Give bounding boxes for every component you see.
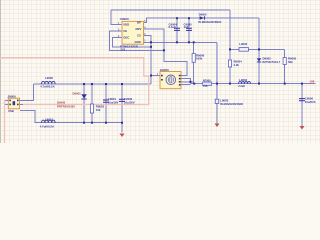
svg-text:D9000: D9000 — [199, 13, 207, 17]
svg-text:10u/16V: 10u/16V — [124, 101, 135, 105]
svg-text:CE: CE — [123, 29, 127, 33]
svg-text:1uF: 1uF — [184, 25, 189, 29]
junction x177 y42 — [176, 41, 178, 43]
junction x106 bottom rail — [105, 122, 107, 124]
inductor L9002 series — [239, 48, 249, 52]
ferrite bead L9003 — [215, 99, 219, 103]
junction x92 bottom rail — [91, 122, 93, 124]
capacitor C9002 — [119, 99, 125, 101]
junction x189 y18 — [188, 17, 190, 19]
svg-text:VDD: VDD — [123, 22, 129, 26]
junction x177 y18 — [176, 17, 178, 19]
svg-text:L9000: L9000 — [45, 76, 53, 80]
wire oscillator pin 4 — [181, 84, 190, 86]
capacitor C9005 — [186, 28, 192, 30]
capacitor C9006 — [299, 99, 305, 101]
svg-text:4.7uH/0.2A: 4.7uH/0.2A — [40, 124, 54, 128]
inductor L9000 series on left rail — [42, 81, 56, 84]
inductor L9001 series on bottom path — [42, 120, 56, 123]
svg-text:BLM18AG601SN1D: BLM18AG601SN1D — [220, 103, 243, 106]
wire ground line from U9000 pin 2 — [144, 41, 218, 43]
svg-text:DRV: DRV — [136, 27, 142, 31]
wire drop x285 to rail — [284, 49, 286, 83]
wire U9000 pin 6 drop to rail — [144, 36, 152, 84]
wire oscillator pin 3 — [181, 82, 193, 84]
wire mid horizontal y49 — [230, 48, 285, 50]
wire J9000 left stubs — [5, 100, 9, 104]
junction x217 rail — [216, 83, 218, 85]
zener D9002 — [257, 57, 281, 64]
svg-text:BP: BP — [137, 20, 141, 24]
resistor R9006 — [192, 54, 195, 63]
junction x259 y49 — [258, 48, 260, 50]
svg-text:2.2k: 2.2k — [234, 63, 240, 67]
oscillator G9000 — [157, 68, 185, 89]
ground at x302 — [300, 126, 305, 130]
svg-text:100k: 100k — [196, 57, 203, 61]
junction x122 bottom rail — [121, 122, 123, 124]
svg-text:56k: 56k — [288, 60, 293, 64]
resistor R9004 — [228, 60, 231, 67]
svg-text:L9002: L9002 — [239, 42, 247, 46]
junction x285 rail — [284, 83, 286, 85]
junction x84 bottom rail — [83, 122, 85, 124]
wire ground rail left — [34, 83, 151, 85]
wire net A right drop to rail — [229, 10, 231, 84]
wire oscillator pin 2 — [181, 79, 190, 84]
ground at x122 — [120, 134, 125, 138]
wire VBUS pink path — [0, 58, 149, 105]
svg-text:U9000: U9000 — [120, 17, 129, 21]
junction x230 rail — [229, 83, 231, 85]
svg-text:BZT52C5V1S-7: BZT52C5V1S-7 — [263, 61, 281, 64]
junction x230 y49 — [229, 48, 231, 50]
junction x151 y47 — [150, 46, 152, 48]
svg-text:4.7uH/0.2A: 4.7uH/0.2A — [40, 85, 54, 89]
junction x84 rail — [83, 83, 85, 85]
junction x194 rail — [193, 83, 195, 85]
resistor R9005 — [283, 58, 286, 65]
junction x164 y50 — [163, 49, 165, 51]
wire J9000 right low stub — [20, 103, 24, 105]
svg-text:G9000: G9000 — [160, 68, 169, 72]
svg-text:J9000: J9000 — [7, 94, 16, 98]
junction x151 y42 — [150, 41, 152, 43]
svg-text:1V8: 1V8 — [310, 79, 315, 83]
ground at x217 — [215, 124, 220, 128]
svg-text:L9004: L9004 — [239, 78, 247, 82]
wire U9000 pin 3 loop — [110, 31, 165, 50]
junction x259 rail — [258, 83, 260, 85]
resistor R9002 — [90, 104, 93, 113]
wire capacitor C9002 branch to ground — [121, 84, 123, 133]
svg-text:CS: CS — [137, 34, 141, 38]
wire drop x217 to ground — [216, 42, 218, 123]
wire oscillator pin 1 stub — [151, 75, 160, 77]
junction x194 y42 — [193, 41, 195, 43]
svg-text:D9001: D9001 — [73, 92, 82, 96]
capacitor C9004 — [174, 28, 180, 30]
svg-text:10u/6V3: 10u/6V3 — [305, 100, 316, 104]
connector J9000 — [7, 94, 19, 112]
diode D9000 series on net B — [199, 13, 222, 25]
wire capacitor C9004 branch — [176, 18, 178, 42]
junction x189 y42 — [188, 41, 190, 43]
wire VBUS left drop — [4, 100, 6, 143]
wire U9000 pin 2 left loop — [113, 38, 151, 47]
svg-text:10k: 10k — [96, 108, 101, 112]
wire net A left drop to U9000 pin 1 — [111, 10, 117, 25]
svg-text:3V3: 3V3 — [120, 48, 125, 52]
junction x92 rail — [91, 83, 93, 85]
wire net B drop at x259 — [258, 18, 260, 83]
junction x190 y82 — [189, 81, 191, 83]
svg-text:L9001: L9001 — [45, 118, 53, 122]
svg-text:2.2uH: 2.2uH — [238, 85, 245, 88]
wire diode D9001 branch — [83, 84, 85, 123]
diode D9001 — [73, 92, 87, 99]
svg-text:BLM18AG601SN1D: BLM18AG601SN1D — [199, 21, 222, 24]
wire net A top horizontal — [111, 9, 230, 11]
wire capacitor C9001 branch — [105, 84, 107, 123]
wire U9000 left pin stubs — [117, 25, 122, 38]
wire J9000 pin riser to rail — [20, 84, 34, 100]
svg-text:OSC: OSC — [123, 35, 129, 39]
svg-text:USB: USB — [8, 109, 14, 113]
svg-text:0.1uF: 0.1uF — [169, 25, 177, 29]
svg-text:1V8: 1V8 — [203, 85, 208, 88]
regulator U9000 — [118, 17, 146, 51]
svg-text:NT900: NT900 — [203, 79, 211, 82]
wire U9000 right pin stubs — [144, 23, 147, 30]
wire rail right — [190, 83, 315, 85]
wire net B from U9000 pin 5 — [144, 18, 260, 22]
svg-text:L9003: L9003 — [220, 99, 228, 103]
svg-text:10u/16V: 10u/16V — [108, 101, 119, 105]
wire U9000 pin 4 to oscillator — [144, 29, 188, 75]
svg-text:PRTR5V0U2X: PRTR5V0U2X — [57, 104, 75, 108]
capacitor C9001 — [103, 100, 109, 102]
junction x122 rail — [121, 83, 123, 85]
inductor L9004 series on rail — [239, 82, 251, 84]
wire J9000 shield to bottom rail — [20, 111, 122, 123]
net tie NT900 on rail — [203, 82, 212, 85]
wire capacitor C9005 branch — [188, 18, 190, 42]
junction x106 rail — [105, 83, 107, 85]
wire resistor R9002 branch — [91, 84, 93, 123]
junction x302 rail — [301, 83, 303, 85]
wire capacitor C9006 branch — [301, 84, 303, 126]
junction x151 y75 — [150, 75, 152, 77]
svg-text:GND: GND — [135, 40, 141, 44]
wire resistor R9006 stem — [193, 42, 195, 83]
